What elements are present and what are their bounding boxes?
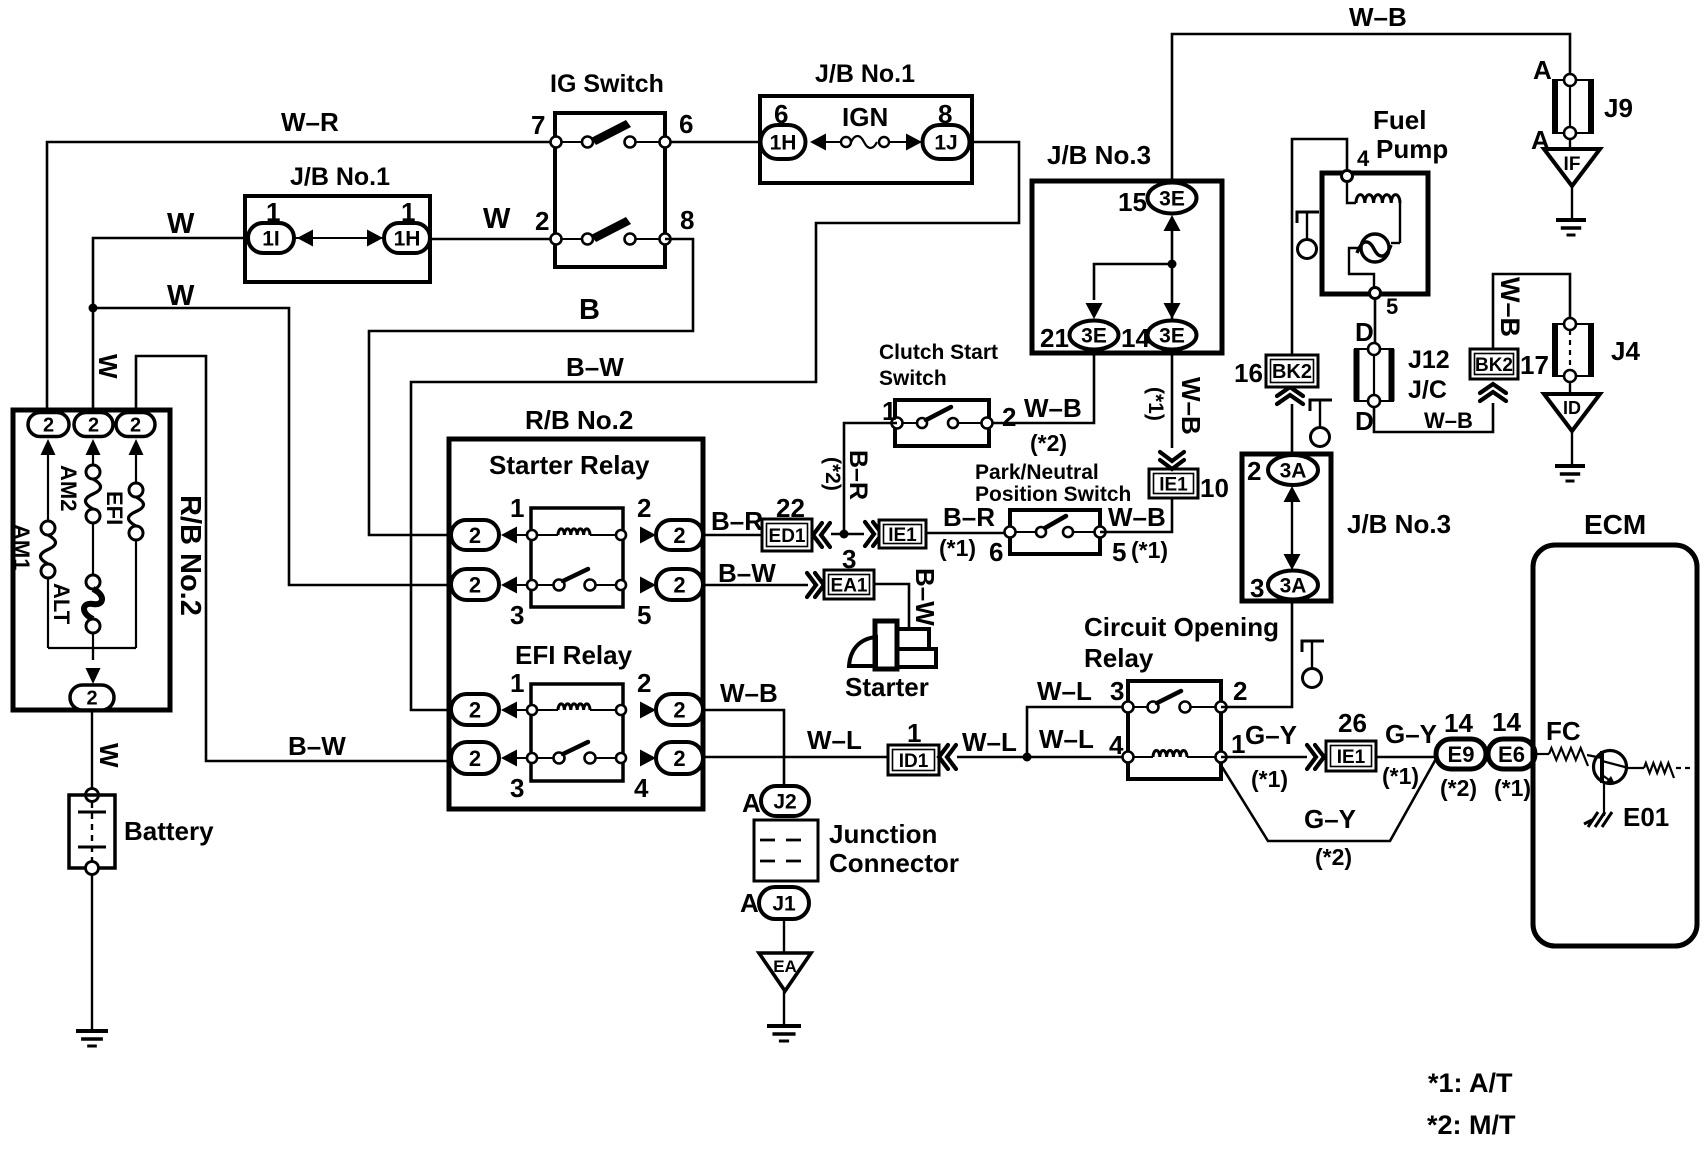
wire B-W from 1J to EFI relay pin 1 (411, 142, 1019, 710)
svg-text:2: 2 (637, 668, 651, 698)
svg-text:Starter Relay: Starter Relay (489, 450, 650, 480)
clutch switch pin 1 (892, 418, 903, 429)
svg-text:B–W: B–W (566, 352, 624, 382)
fuse EFI (135, 455, 137, 483)
wire W-B from 3E-15 to J9 (1172, 34, 1570, 183)
wire BK2-16 up to fuel pump pin 4 (1292, 139, 1347, 355)
svg-text:Starter: Starter (845, 672, 929, 702)
junction connector box (754, 820, 818, 881)
wire W-B J12 to BK2-17 (1374, 403, 1493, 432)
svg-text:2: 2 (469, 523, 481, 548)
svg-text:1H: 1H (770, 132, 797, 155)
svg-text:(*1): (*1) (1251, 766, 1288, 792)
C.O. relay coil row (1133, 756, 1215, 758)
svg-text:(*2): (*2) (1315, 844, 1352, 870)
wire 2(3A) up to BK2-16 (1291, 404, 1294, 455)
arrow into 3E-21 (1086, 303, 1103, 319)
svg-text:Connector: Connector (829, 848, 959, 878)
svg-text:W: W (94, 743, 124, 768)
park/neutral position switch box (1010, 510, 1100, 554)
connector E9 (1436, 739, 1486, 769)
EFI relay coil row (517, 709, 616, 711)
svg-text:W–B: W–B (1349, 2, 1407, 32)
connector BK2 pin 16 (1266, 355, 1318, 387)
internal branch to 3E-21 (1094, 264, 1172, 300)
svg-text:G–Y: G–Y (1304, 804, 1356, 834)
svg-text:3A: 3A (1280, 460, 1307, 483)
svg-text:2: 2 (88, 415, 99, 437)
svg-text:B–W: B–W (288, 731, 346, 761)
clutch switch contacts (917, 418, 927, 428)
svg-text:Clutch Start: Clutch Start (879, 341, 998, 364)
starter motor symbol (849, 637, 876, 666)
wire W-L branch to relay pin 3 (1027, 707, 1128, 757)
junction connector J4 (1553, 324, 1593, 376)
fuel pump box (1322, 173, 1428, 294)
svg-text:2: 2 (43, 415, 54, 437)
svg-text:2: 2 (469, 572, 481, 597)
svg-text:IGN: IGN (842, 102, 888, 132)
chevrons before IE1 (865, 522, 874, 546)
connector 1H (IGN) (761, 125, 806, 159)
svg-text:ECM: ECM (1584, 509, 1646, 540)
wire B-R IE1 to park/neutral switch (926, 532, 1010, 535)
starter relay pin3 connector 2 (left) (451, 569, 499, 600)
svg-text:FC: FC (1546, 716, 1581, 746)
svg-text:1: 1 (510, 668, 524, 698)
svg-text:2: 2 (535, 206, 549, 236)
svg-text:AM2: AM2 (56, 465, 81, 511)
wire ED1 to IE1 (831, 533, 864, 536)
svg-text:10: 10 (1200, 473, 1229, 503)
bypass wire G-Y (*2) (1219, 757, 1437, 841)
svg-text:IE1: IE1 (888, 525, 917, 546)
svg-text:3E: 3E (1159, 188, 1185, 211)
fuel pump pin 5 (1370, 288, 1381, 299)
wire B-W starter relay pin5 to EA1 (703, 584, 808, 587)
chevrons into IE1-10 (1160, 460, 1184, 469)
wire E6 to FC resistor (1535, 753, 1549, 755)
svg-text:IF: IF (1564, 154, 1581, 175)
clutch start switch box (895, 400, 989, 446)
svg-text:E9: E9 (1448, 742, 1475, 767)
J/B No.1 box (top, IGN) (760, 96, 972, 183)
ground triangle ID (1569, 382, 1571, 394)
arrow into starter relay left bottom (501, 577, 517, 594)
ground symbol (battery) (76, 1029, 108, 1033)
svg-text:Park/Neutral: Park/Neutral (975, 461, 1099, 484)
fuel pump pin 4 (1342, 171, 1353, 182)
C.O. relay pin 3 (1123, 702, 1134, 713)
svg-text:(*1): (*1) (1144, 387, 1167, 421)
wire B-W from EFI fuse to EFI relay pin3 (136, 356, 451, 761)
svg-text:J4: J4 (1611, 336, 1640, 366)
connector J1 (759, 887, 809, 919)
chassis ground E01 (1584, 812, 1612, 827)
internal wire J/B No.3 (1171, 231, 1174, 322)
svg-text:3A: 3A (1280, 575, 1307, 598)
svg-text:6: 6 (679, 109, 693, 139)
svg-text:EFI Relay: EFI Relay (515, 640, 633, 670)
starter relay pin2 connector 2 (right) (656, 520, 703, 550)
EFI relay inner box (531, 684, 623, 781)
wire W-B EFI relay pin2 to junction connector J2 (703, 710, 784, 786)
connector stub near fuel pump (1297, 212, 1319, 223)
svg-text:J12: J12 (1408, 346, 1450, 374)
wire G-Y relay pin1 to IE1-26 (1221, 756, 1307, 759)
ground symbol (EA) (767, 1024, 801, 1028)
svg-text:J2: J2 (773, 791, 796, 814)
svg-text:2: 2 (673, 523, 685, 548)
svg-text:(*1): (*1) (939, 535, 976, 561)
svg-text:1: 1 (510, 493, 524, 523)
chevrons before EA1 (807, 573, 816, 597)
svg-text:Circuit Opening: Circuit Opening (1084, 612, 1279, 642)
starter relay switch row (517, 584, 616, 586)
connector ID1 (888, 745, 939, 775)
svg-text:W–B: W–B (1424, 408, 1473, 433)
connector 2 (EFI feed) (116, 413, 155, 437)
svg-text:AM1: AM1 (9, 524, 34, 570)
svg-text:3: 3 (1250, 573, 1264, 603)
svg-text:J9: J9 (1604, 93, 1633, 123)
IG Switch box (555, 113, 665, 267)
svg-text:Pump: Pump (1376, 134, 1448, 164)
svg-text:Fuel: Fuel (1373, 105, 1426, 135)
battery (86, 789, 99, 802)
svg-text:A: A (740, 888, 759, 918)
svg-text:IG Switch: IG Switch (550, 70, 664, 98)
svg-text:Junction: Junction (829, 819, 937, 849)
svg-text:B–R: B–R (844, 450, 872, 500)
wire W-L EFI relay pin4 to ID1 (703, 756, 888, 759)
svg-text:W: W (167, 280, 195, 312)
svg-text:2: 2 (130, 415, 141, 437)
svg-text:7: 7 (531, 110, 545, 140)
svg-text:*1: A/T: *1: A/T (1428, 1068, 1513, 1098)
svg-text:3E: 3E (1081, 325, 1107, 348)
svg-text:B: B (579, 294, 600, 326)
svg-text:W–L: W–L (1037, 676, 1092, 706)
svg-text:14: 14 (1444, 708, 1473, 738)
svg-text:2: 2 (1002, 402, 1016, 432)
svg-text:B–R: B–R (711, 506, 763, 536)
connector 3A pin 3 (1268, 571, 1318, 600)
P/N switch contacts (1036, 527, 1046, 537)
ground symbol (IF) (1556, 218, 1586, 222)
wire battery to ground (91, 874, 93, 1031)
svg-text:G–Y: G–Y (1385, 719, 1437, 749)
svg-text:W–B: W–B (1024, 393, 1082, 423)
svg-text:4: 4 (1357, 146, 1370, 171)
IG switch pin 8 (660, 234, 671, 245)
svg-text:J/C: J/C (1408, 376, 1447, 404)
chevrons before IE1-26 (1307, 745, 1316, 769)
svg-text:17: 17 (1520, 350, 1549, 380)
connector ED1 (762, 519, 812, 551)
J/B No.3 box (right) (1242, 454, 1331, 601)
connector J2 (761, 786, 809, 816)
wire W fuse box to battery (91, 710, 93, 790)
svg-text:W: W (483, 203, 511, 235)
wire fuel pump pin5 to J12 (1374, 298, 1377, 343)
svg-text:R/B No.2: R/B No.2 (174, 495, 206, 616)
connector 3E pin 14 (1148, 321, 1197, 350)
svg-text:1H: 1H (394, 228, 421, 251)
svg-text:BK2: BK2 (1475, 355, 1513, 376)
IG switch pin 2 (551, 234, 562, 245)
arrow into EFI relay left bottom (501, 750, 517, 767)
wire W from 1I to fuse box (93, 238, 248, 413)
double arrow between 3A connectors (1291, 495, 1293, 560)
svg-text:W–L: W–L (1039, 724, 1094, 754)
junction node in J/B No.3 (1168, 260, 1177, 269)
wire IF to ground (1571, 186, 1573, 220)
svg-text:(*2): (*2) (1030, 430, 1067, 456)
svg-text:ALT: ALT (49, 583, 74, 625)
svg-text:2: 2 (469, 697, 481, 722)
wire EA1 to starter (874, 584, 909, 629)
chevrons into BK2-17 (1480, 392, 1506, 401)
connector 2 (AM2 feed) (74, 413, 113, 437)
fuse AM1 (47, 455, 49, 521)
connector 1I (248, 223, 294, 253)
svg-text:2: 2 (469, 746, 481, 771)
svg-text:2: 2 (673, 746, 685, 771)
connector IE1 (B-R) (879, 520, 926, 548)
connector 1J (923, 125, 970, 159)
arrow into output connector (86, 668, 101, 684)
IG switch contact row 2 (582, 234, 593, 245)
J/B No.1 box (left) (245, 196, 430, 282)
svg-text:B–R: B–R (943, 502, 995, 532)
connector EA1 (824, 570, 874, 599)
svg-text:4: 4 (1109, 730, 1124, 760)
wire from 3E-21 to clutch start switch pin 2 (989, 349, 1094, 423)
junction connector J12 (1355, 349, 1393, 401)
svg-text:J/B No.3: J/B No.3 (1047, 140, 1151, 170)
wire B-R starter relay pin2 to ED1 (703, 534, 762, 537)
svg-text:J/B No.3: J/B No.3 (1347, 509, 1451, 539)
connector 3A pin 2 (1268, 455, 1318, 485)
junction node W-L (1023, 753, 1032, 762)
arrow into 3E-15 (1164, 215, 1181, 231)
clutch switch pin 2 (982, 418, 993, 429)
connector 1H (J/B No.1 left) (384, 223, 430, 253)
arrow into 3E-14 (1164, 303, 1181, 319)
svg-text:ED1: ED1 (769, 526, 806, 547)
connector 3E pin 15 (1148, 183, 1197, 214)
svg-text:W–B: W–B (1176, 377, 1206, 435)
svg-text:2: 2 (1247, 456, 1261, 486)
svg-text:Switch: Switch (879, 367, 947, 390)
starter relay pin5 connector 2 (right) (656, 569, 703, 600)
svg-text:(*1): (*1) (1382, 763, 1419, 789)
svg-text:BK2: BK2 (1272, 361, 1312, 383)
svg-text:4: 4 (634, 773, 649, 803)
IGN fusible link symbol (810, 134, 826, 151)
svg-text:R/B No.2: R/B No.2 (525, 405, 633, 435)
C.O. relay pin 1 (1216, 752, 1227, 763)
svg-text:IE1: IE1 (1159, 474, 1188, 495)
chevrons after ID1 (939, 745, 948, 769)
wire EA to ground (783, 991, 785, 1026)
starter relay coil row (517, 534, 616, 536)
svg-text:ID: ID (1563, 398, 1581, 418)
svg-text:W–L: W–L (807, 725, 862, 755)
wire transistor to E01 ground (1603, 783, 1605, 816)
svg-text:6: 6 (989, 537, 1003, 567)
svg-text:2: 2 (86, 688, 97, 710)
ground triangle IF (1569, 139, 1571, 149)
resistor after transistor (1626, 767, 1644, 769)
EFI relay pin1 connector 2 (left) (451, 694, 499, 725)
svg-text:5: 5 (1386, 294, 1398, 319)
svg-text:EA: EA (773, 957, 797, 976)
connector 2 (fuse box output) (70, 685, 114, 710)
fuse box bus wire (48, 648, 136, 660)
fuse AM2 (92, 455, 94, 465)
wire from IG switch pin 6 to J/B No.1 connector 1H (665, 141, 760, 144)
arrow into EFI relay right bottom (640, 750, 656, 767)
svg-text:3: 3 (510, 600, 524, 630)
svg-text:5: 5 (1112, 537, 1126, 567)
svg-text:E6: E6 (1498, 742, 1525, 767)
svg-text:21: 21 (1040, 323, 1069, 353)
svg-text:ID1: ID1 (899, 751, 929, 772)
EFI relay pin4 connector 2 (right) (656, 742, 703, 774)
svg-text:2: 2 (637, 493, 651, 523)
svg-text:B–W: B–W (910, 568, 940, 626)
junction connector J9 (1553, 80, 1593, 133)
svg-text:2: 2 (1233, 676, 1247, 706)
chevrons after ED1 (813, 523, 822, 547)
arrow into connector (AM1) (41, 439, 56, 455)
svg-text:EA1: EA1 (831, 575, 868, 596)
wire W from 1H to IG switch pin 2 (430, 238, 556, 241)
svg-text:14: 14 (1492, 707, 1521, 737)
link 1I-1H with arrows (294, 237, 384, 239)
wire BK2-17 to J4 (1493, 274, 1570, 349)
fuel pump coil (1347, 182, 1356, 203)
svg-text:(*1): (*1) (1131, 537, 1168, 563)
arrow into EFI relay right top (640, 702, 656, 719)
EFI relay pin2 connector 2 (right) (656, 694, 703, 725)
svg-text:1: 1 (882, 396, 896, 426)
arrow into starter relay right bottom (640, 577, 656, 594)
connector IE1 pin 10 (1149, 469, 1198, 498)
starter relay inner box (531, 508, 623, 607)
P/N switch pin 6 (1005, 527, 1016, 538)
EFI relay switch row (517, 757, 616, 759)
wire clutch pin 1 down to junction (844, 423, 897, 534)
junction node on W wire (89, 304, 98, 313)
svg-text:J/B No.1: J/B No.1 (815, 60, 915, 88)
arrow into connector (AM2) (86, 439, 101, 455)
svg-text:J/B No.1: J/B No.1 (290, 163, 390, 191)
wire W branch to starter relay pin 3 (93, 308, 451, 585)
connector 3E pin 21 (1070, 321, 1119, 350)
wire P/N pin5 to IE1-10 (1100, 498, 1172, 532)
svg-text:G–Y: G–Y (1245, 720, 1297, 750)
svg-text:1: 1 (1231, 729, 1245, 759)
arrow into starter relay left top (501, 527, 517, 544)
arrow into starter relay right top (640, 527, 656, 544)
svg-text:(*1): (*1) (1494, 775, 1531, 801)
svg-text:W: W (167, 208, 195, 240)
J/B No.3 box (top) (1032, 181, 1222, 353)
IG switch pin 6 (660, 137, 671, 148)
svg-text:W–B: W–B (1108, 502, 1166, 532)
svg-text:W–B: W–B (1495, 277, 1525, 337)
P/N switch pin 5 (1095, 527, 1106, 538)
svg-text:15: 15 (1118, 187, 1147, 217)
C.O. relay pin 4 (1123, 752, 1134, 763)
connector 2 (AM1 feed) (28, 413, 69, 437)
ground symbol (ID) (1555, 464, 1585, 468)
junction node at B-R (840, 530, 849, 539)
svg-text:3: 3 (510, 773, 524, 803)
svg-text:Battery: Battery (124, 816, 214, 846)
connector E6 (1488, 739, 1535, 769)
C.O. relay pin 2 (1216, 702, 1227, 713)
svg-text:1J: 1J (934, 132, 957, 155)
svg-text:W: W (93, 354, 123, 379)
svg-text:B–W: B–W (718, 558, 776, 588)
svg-text:3: 3 (1110, 676, 1124, 706)
arrow into connector (EFI) (129, 439, 144, 455)
R/B No.2 relay block box (449, 439, 703, 809)
wire W-R from IG switch pin 7 to R/B No.2 fuse AM2-row connector (47, 142, 556, 413)
ground triangle EA (759, 953, 811, 991)
svg-text:(*2): (*2) (821, 457, 844, 491)
resistor FC (in ECM) (1549, 748, 1588, 766)
arrow into EFI relay left top (501, 702, 517, 719)
connector stub near BK2-16 (1310, 400, 1332, 411)
svg-text:2: 2 (673, 697, 685, 722)
fuel pump motor (1361, 234, 1389, 262)
connector IE1 pin 26 (1326, 741, 1376, 771)
svg-text:W–R: W–R (281, 107, 339, 137)
svg-text:8: 8 (680, 205, 694, 235)
svg-text:(*2): (*2) (1440, 775, 1477, 801)
connector BK2 pin 17 (1470, 349, 1518, 379)
wire ID to ground (1571, 431, 1573, 466)
R/B No.2 fuse box (13, 410, 170, 710)
C.O. relay switch row (1148, 702, 1159, 713)
IG switch pin 7 (551, 137, 562, 148)
svg-text:3E: 3E (1159, 325, 1185, 348)
transistor in ECM (1594, 751, 1627, 784)
svg-text:D: D (1355, 406, 1374, 436)
wire relay pin2 to 3A-3 (1221, 599, 1292, 707)
svg-text:J1: J1 (772, 893, 796, 916)
svg-text:A: A (1533, 55, 1552, 85)
wire 3E-14 down to IE1-10 (1171, 349, 1174, 448)
svg-text:A: A (742, 788, 761, 818)
EFI relay pin3 connector 2 (left) (451, 742, 499, 774)
svg-text:16: 16 (1234, 358, 1263, 388)
svg-text:5: 5 (637, 600, 651, 630)
connector stub near relay pin 2 (1302, 641, 1324, 652)
ECM box (1533, 545, 1697, 946)
wire IE1-26 to E9 (1376, 756, 1436, 759)
circuit opening relay box (1128, 681, 1221, 779)
svg-text:1I: 1I (262, 228, 280, 251)
wire B from IG switch pin 8 to starter relay pin 1 (369, 239, 693, 535)
svg-text:Relay: Relay (1084, 643, 1154, 673)
IG switch contact row 1 (582, 137, 593, 148)
